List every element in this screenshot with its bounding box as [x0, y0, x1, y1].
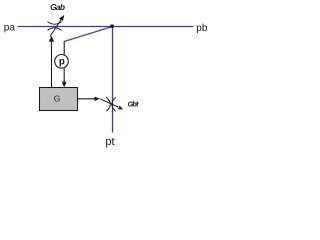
- svg-text:G: G: [54, 94, 61, 104]
- svg-text:pb: pb: [196, 23, 208, 34]
- svg-text:p: p: [59, 57, 65, 68]
- svg-text:Gbt: Gbt: [128, 100, 139, 109]
- svg-text:pt: pt: [105, 136, 114, 148]
- svg-text:Gab: Gab: [50, 2, 65, 12]
- svg-text:pa: pa: [4, 23, 16, 34]
